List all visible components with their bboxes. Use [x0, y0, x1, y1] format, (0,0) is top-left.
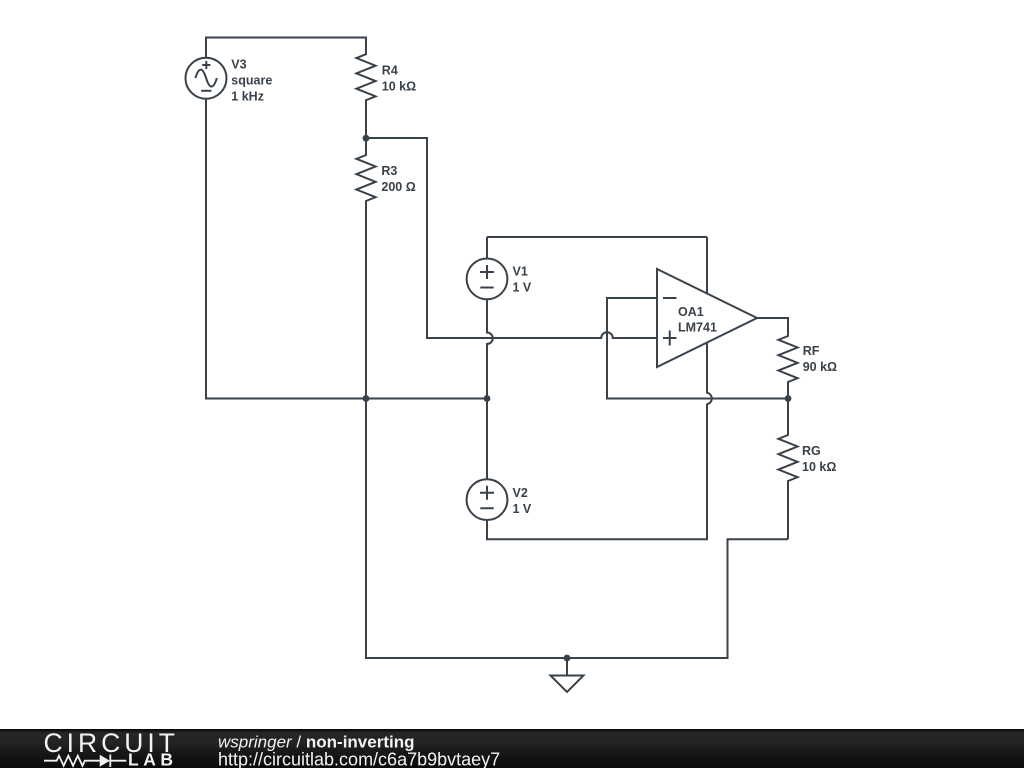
svg-text:1 kHz: 1 kHz	[231, 89, 264, 103]
svg-text:LM741: LM741	[678, 320, 717, 334]
svg-text:200 Ω: 200 Ω	[381, 180, 415, 194]
svg-text:RF: RF	[803, 344, 820, 358]
svg-text:R4: R4	[382, 64, 398, 78]
svg-text:1 V: 1 V	[513, 281, 532, 295]
svg-text:LAB: LAB	[128, 750, 177, 768]
svg-text:10 kΩ: 10 kΩ	[382, 80, 416, 94]
svg-text:90 kΩ: 90 kΩ	[803, 360, 837, 374]
svg-text:V2: V2	[513, 486, 528, 500]
svg-text:1 V: 1 V	[513, 502, 532, 516]
svg-text:wspringer / non-inverting: wspringer / non-inverting	[218, 732, 414, 751]
svg-text:square: square	[231, 73, 272, 87]
svg-text:RG: RG	[802, 444, 821, 458]
svg-text:http://circuitlab.com/c6a7b9bv: http://circuitlab.com/c6a7b9bvtaey7	[218, 750, 500, 768]
svg-text:OA1: OA1	[678, 305, 704, 319]
svg-text:V1: V1	[513, 265, 528, 279]
svg-text:V3: V3	[231, 57, 246, 71]
svg-text:10 kΩ: 10 kΩ	[802, 460, 836, 474]
svg-text:R3: R3	[381, 164, 397, 178]
